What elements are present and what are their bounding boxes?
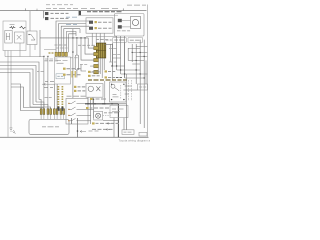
bus extension right <box>118 104 126 130</box>
faint blue label tints <box>66 17 77 24</box>
tan tag y72 <box>88 71 91 73</box>
header text row 1 <box>46 4 73 6</box>
connector tick B+ <box>79 11 81 15</box>
blower link wires <box>122 21 131 27</box>
harness nest run 1 <box>56 21 89 52</box>
lower right box <box>110 105 128 117</box>
blower motor box <box>131 17 141 29</box>
text box A below blower <box>113 37 127 42</box>
switch SW4 <box>69 118 86 120</box>
control tan tag b <box>95 27 97 29</box>
bottom label row 2 <box>92 128 113 130</box>
lower relay coil circle <box>88 86 93 91</box>
blower unit outer box <box>115 14 145 37</box>
housing mid band <box>96 50 106 52</box>
control connector a <box>89 21 93 24</box>
rail top dots <box>90 99 94 100</box>
harness nest run 2 <box>59 24 86 53</box>
connector plug row 2 <box>45 17 48 20</box>
tick on rule x37 <box>36 9 38 11</box>
dashed pair verticals <box>129 80 132 101</box>
relay R3 contact <box>29 35 35 41</box>
frame right rule <box>146 5 148 137</box>
connector code box <box>122 130 134 135</box>
lower relay pins <box>88 81 105 104</box>
control connector b <box>89 27 93 30</box>
relay R2 contact <box>17 35 22 40</box>
tan wire pair mid-low 2 <box>75 71 76 78</box>
text box B label <box>130 39 140 41</box>
blower connector 1 <box>118 19 122 22</box>
text box B right <box>128 37 143 43</box>
bottom mid text <box>89 130 99 132</box>
label row y62 <box>45 60 59 62</box>
feed wire from rule to relay <box>29 11 31 31</box>
sub rule under heater box <box>86 36 117 38</box>
hi relay text <box>139 86 146 88</box>
text y76 <box>92 75 100 77</box>
text row above switch box a <box>78 86 86 88</box>
heater control box <box>86 18 113 33</box>
color-code band y80 <box>88 79 127 81</box>
secondary rule y15 <box>78 14 118 16</box>
bus dots at relay drops <box>87 103 105 105</box>
right mesh ties <box>113 52 148 78</box>
blower box inner text <box>117 30 130 32</box>
lower relay contact <box>96 86 100 91</box>
control label a <box>98 21 112 23</box>
text row under heater box <box>96 39 108 41</box>
tan tag rows above switch box b <box>74 90 76 92</box>
harness nest run 4 <box>64 29 80 53</box>
frame bottom rule <box>0 136 149 138</box>
elbow bundle into pin row <box>30 84 57 109</box>
right tie y90 <box>123 89 137 91</box>
blower connector 2 <box>118 25 122 28</box>
svg-text:Toyota wiring diagram a/c: Toyota wiring diagram a/c <box>119 138 151 142</box>
top-right part number text <box>127 4 146 6</box>
pin row (tan pins) <box>40 109 64 115</box>
wire label row 1 <box>51 12 69 14</box>
lamp box <box>94 111 103 120</box>
ECU inner label box <box>56 74 65 79</box>
control label b <box>98 27 112 29</box>
tan label row mid b <box>63 74 66 76</box>
ECU box <box>55 57 71 84</box>
left feeder nest 1 <box>0 62 39 107</box>
lower right box text <box>112 109 124 112</box>
ECU inner label text <box>57 75 63 77</box>
switch SW2 <box>69 107 86 109</box>
right small box hi relay <box>138 84 148 90</box>
extra right verticals <box>111 44 147 84</box>
sensor strips (tan dashed) <box>58 86 62 107</box>
ground splash marks <box>13 130 16 134</box>
fuse F2 symbol <box>20 26 26 29</box>
connector stack rows (tan) <box>94 46 99 73</box>
tick on rule x123 <box>122 8 124 10</box>
main bottom bus <box>85 104 118 138</box>
blower drops <box>113 36 125 80</box>
text right mid a <box>108 70 115 72</box>
faint labels mid-right column <box>109 49 120 63</box>
tan tag y99 <box>90 98 92 100</box>
wire y49 <box>44 49 56 51</box>
label 10A left <box>37 71 44 73</box>
bus junction dots <box>94 103 113 105</box>
housing pin lines <box>98 43 104 58</box>
tan label row mid a <box>63 68 66 70</box>
connector row CN1 (tan cells) <box>55 52 67 56</box>
nest inner run extra <box>69 34 76 52</box>
arrow glyph row y129 <box>106 128 110 130</box>
lamp dashed lead <box>103 115 111 117</box>
lamp-to-bus tie <box>103 120 118 122</box>
label left of box A <box>106 39 112 41</box>
switch output stubs <box>85 103 94 120</box>
label y88 <box>44 87 53 89</box>
relay R1 box <box>5 31 12 44</box>
frame top rule <box>0 10 147 12</box>
L-wire pair lower-left outer <box>11 84 40 111</box>
amplifier label <box>42 126 59 128</box>
switch pin dots <box>68 103 69 122</box>
switch SW3 <box>69 113 86 115</box>
relay block lower mid <box>86 84 103 98</box>
control unit box right-low <box>110 82 127 102</box>
label y82 <box>45 81 54 83</box>
wire tie y56 <box>5 56 44 58</box>
ECU text <box>57 61 68 64</box>
blower motor M <box>132 19 138 25</box>
bottom label row 1 <box>96 122 120 124</box>
mid-right verticals <box>113 43 125 78</box>
text row above switch box b <box>78 90 86 92</box>
right lower small box <box>139 132 147 136</box>
right mesh dots <box>116 52 145 79</box>
ground symbol left <box>10 128 13 132</box>
wire drops below J/B <box>5 43 35 57</box>
tan tag right mid a <box>105 70 108 72</box>
text right mid b <box>108 76 115 78</box>
label row y108 <box>90 107 110 109</box>
feed line y38 <box>40 30 88 57</box>
junction dot x73 y52 <box>72 51 74 53</box>
resistor capsule on wire <box>75 55 79 70</box>
arrow glyph row y123 <box>107 122 111 124</box>
unit switch lever <box>115 88 120 91</box>
right mesh verticals <box>128 40 144 128</box>
fuse F1 label <box>10 23 15 25</box>
tan tag y76 <box>88 75 91 77</box>
extra right ties <box>104 44 140 94</box>
L-wire pair lower-left inner <box>11 87 44 108</box>
switch assembly box <box>66 98 88 124</box>
main connector housing (tan blob) <box>96 43 106 58</box>
tan tag right mid b <box>105 76 108 78</box>
housing upper feeds <box>92 34 104 47</box>
relay R2 box <box>15 32 25 43</box>
lamp label <box>104 112 118 114</box>
branch drop from rule <box>43 11 45 19</box>
lamp cross <box>96 114 99 117</box>
arrow mark bottom mid <box>80 130 86 132</box>
amplifier box bottom <box>29 119 69 134</box>
unit text <box>113 95 119 97</box>
CN1 label row second <box>56 47 68 49</box>
lamp symbol <box>96 113 101 118</box>
harness nest run 3 <box>61 26 89 52</box>
text y72 <box>92 71 100 73</box>
label left low <box>45 97 52 99</box>
connector plug row 1 <box>45 12 48 15</box>
tan tag bottom 1 <box>92 122 95 124</box>
connector code text <box>124 131 132 133</box>
extra mesh ties right <box>125 47 148 87</box>
label marks above CN row <box>55 44 68 46</box>
tan tag rows above switch box a <box>74 86 76 88</box>
fuse F1 symbol <box>10 27 16 29</box>
text box A label <box>114 39 124 41</box>
right vertical x126 upper <box>125 74 127 104</box>
unit switch circle <box>111 84 115 88</box>
switch SW1 <box>69 101 86 103</box>
tan tag y108 <box>86 107 89 109</box>
label smudge row above housing <box>78 44 95 46</box>
sensor strip caps <box>57 107 59 111</box>
drops from lower right box <box>114 118 124 138</box>
label row y99 right <box>90 98 106 100</box>
extra tie dots <box>111 52 137 75</box>
dashed column inside unit box <box>120 85 122 99</box>
relay R3 box <box>27 31 37 45</box>
tiny central labels <box>70 58 87 65</box>
text below CN1 <box>45 58 58 60</box>
relay R1 coil <box>6 33 9 40</box>
housing lower tails <box>98 58 104 78</box>
text row mid b <box>67 74 81 76</box>
mid-left long verticals <box>44 57 48 109</box>
arrow wire y84 <box>42 83 54 85</box>
rule labels dark row <box>87 11 122 13</box>
wire label row 2 <box>51 17 69 19</box>
junction block J/B outer box <box>3 21 26 51</box>
stack pin marks <box>90 66 94 72</box>
ticks on mid-left verticals <box>43 55 49 57</box>
bus dot x73 <box>77 130 79 132</box>
nest inner corner run <box>66 29 80 53</box>
text row mid a <box>67 68 81 70</box>
switch box header text <box>67 95 86 97</box>
unit pin dots <box>111 84 125 101</box>
small dark text lower right mesh <box>116 77 122 79</box>
junction dots y39 <box>72 37 86 39</box>
tan wire pair mid-low <box>71 71 72 78</box>
CN1 side label <box>49 52 54 54</box>
mid bundle verticals <box>73 29 94 99</box>
header text row 2 <box>46 7 118 9</box>
pin stubs to amp box <box>41 114 64 119</box>
ground wire pair left <box>8 57 11 137</box>
bus vertical x73 lower <box>72 118 78 137</box>
switch rail verticals <box>91 99 94 124</box>
control tan tag a <box>95 21 97 23</box>
relay R3 pin dot <box>28 34 29 35</box>
tick node on top rule <box>25 8 27 10</box>
